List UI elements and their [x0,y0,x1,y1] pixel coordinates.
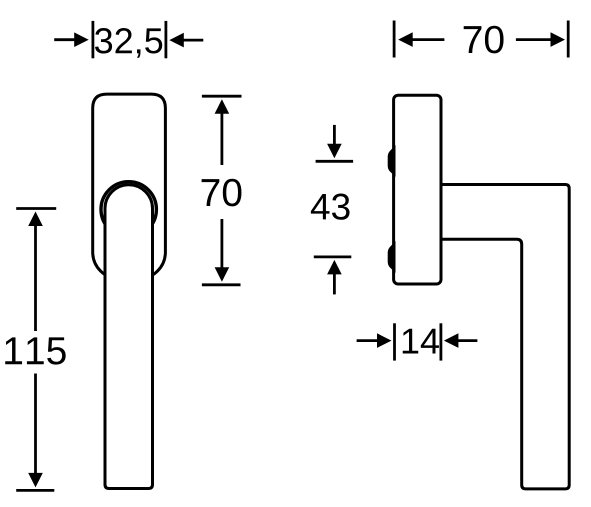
dim 115 bottom tick [16,489,54,492]
top screw lug [389,148,395,175]
dim 70 front bottom tick [202,283,241,286]
dim 70 side right tick [567,21,570,58]
handle stem front view [105,185,153,489]
dim 32,5 label [95,28,162,58]
dim 70 side label [464,26,504,54]
dim 32,5 right arrow [169,33,203,48]
rosette front view (rounded rectangle) [93,94,166,279]
dim 43 up arrow below [327,260,342,295]
dim 14 right arrow [444,333,478,348]
dim 14 label [403,329,439,354]
dim 70 side left tick [393,21,396,58]
handle arm and grip side view [441,185,569,489]
dim 70 side right arrow [516,32,565,47]
neck collar circle [101,182,156,237]
dim 70 front label [202,179,242,207]
dim 70 front down arrow [215,219,230,282]
dim 43 top tick [316,160,354,163]
dim 14 right tick [439,323,442,360]
dim 43 bottom tick [314,255,352,258]
dim 115 top tick [16,207,56,210]
dim 32,5 left arrow [54,32,88,47]
dim 14 left tick [393,323,396,360]
dim 115 label [5,337,65,364]
dim 70 front up arrow [215,99,230,165]
plate side view [394,95,441,284]
dim 32,5 right tick [164,21,167,58]
dim 70 side left arrow [398,32,444,47]
dim 32,5 left tick [92,21,95,58]
dim 43 down arrow above [327,125,342,158]
dim 43 label [311,194,350,220]
dim 14 left arrow [357,333,392,348]
dim 70 front top tick [202,95,242,98]
bottom screw lug [389,244,395,271]
dim 115 down arrow [28,374,43,488]
dim 115 up arrow [28,212,43,332]
